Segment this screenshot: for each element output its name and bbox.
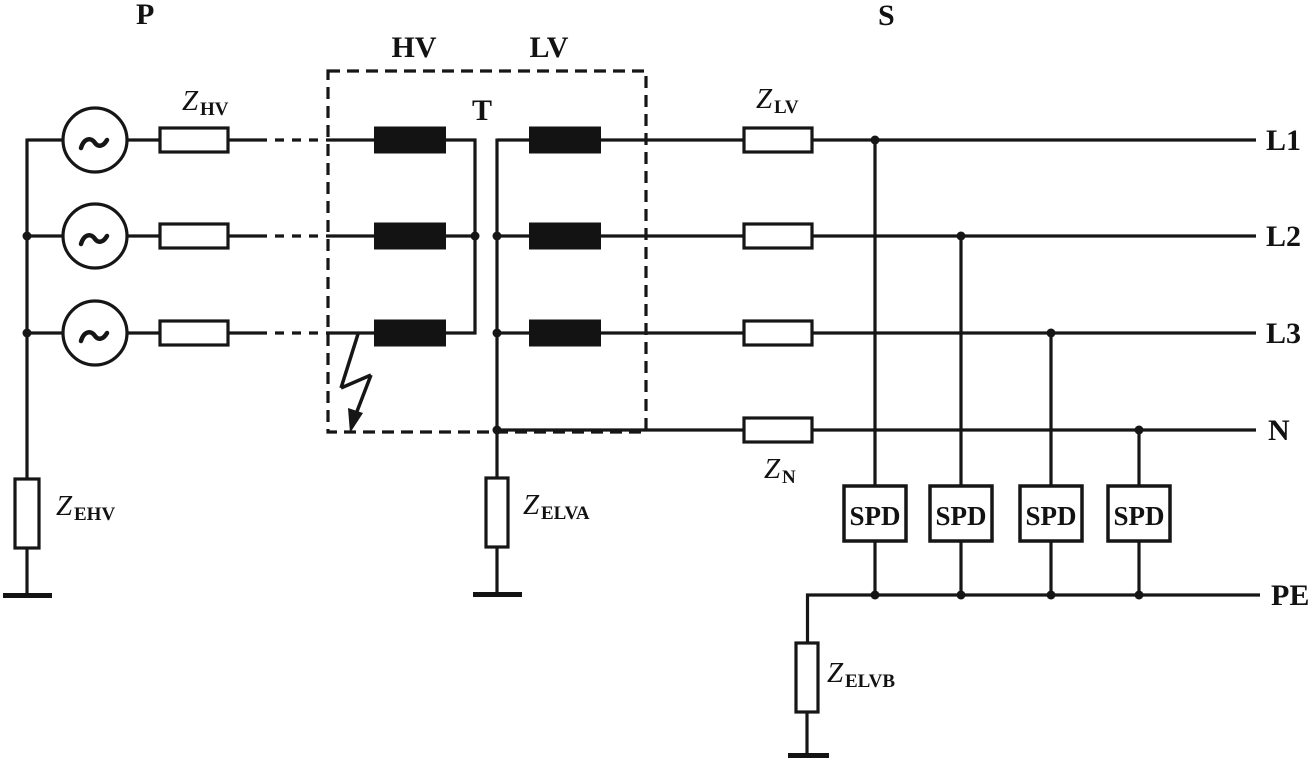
ground ELVB	[788, 753, 829, 758]
wire LV2 to ZLV2	[601, 234, 744, 237]
junction PE SPD3	[1047, 591, 1056, 600]
wire bus to source G1	[27, 138, 64, 141]
wire ZEHV to ground	[25, 548, 28, 593]
resistor ZHV2	[160, 224, 228, 248]
wire LV star bus	[495, 139, 498, 479]
wire HV1 to bus	[446, 138, 477, 141]
wire G2 to ZHV2	[127, 234, 160, 237]
wire into box row1	[332, 138, 375, 141]
resistor ZHV1	[160, 128, 228, 152]
junction PE SPD4	[1135, 591, 1144, 600]
wire ZHV2 stub	[228, 234, 258, 237]
svg-text:Z: Z	[523, 489, 540, 521]
resistor ZELVB	[796, 643, 818, 712]
junction L1 SPD	[871, 136, 880, 145]
svg-text:HV: HV	[200, 99, 229, 120]
svg-text:N: N	[1268, 414, 1290, 447]
svg-text:SPD: SPD	[935, 501, 986, 531]
junction left bus row2	[23, 232, 32, 241]
svg-text:ELVA: ELVA	[541, 503, 590, 524]
wire LV bus to LV1	[497, 138, 529, 141]
wire line N	[812, 428, 1256, 431]
svg-text:Z: Z	[756, 83, 773, 115]
wire HV star bus	[473, 139, 476, 335]
svg-text:Z: Z	[56, 490, 73, 522]
junction PE SPD2	[957, 591, 966, 600]
wire G3 to ZHV3	[127, 331, 160, 334]
wire line PE	[806, 593, 1260, 596]
source G2	[63, 204, 127, 268]
junction L3 SPD	[1047, 329, 1056, 338]
svg-text:T: T	[472, 94, 492, 127]
svg-text:PE: PE	[1271, 579, 1309, 612]
SPD4	[1108, 486, 1170, 541]
resistor ZEHV	[15, 479, 39, 548]
SPD2	[930, 486, 992, 541]
svg-text:Z: Z	[827, 657, 844, 689]
junction N SPD	[1135, 426, 1144, 435]
wire PE to ZELVB	[806, 594, 809, 644]
svg-text:L3: L3	[1266, 317, 1301, 350]
wire SPD3 to PE	[1049, 541, 1052, 595]
wire LV bus to LV2	[497, 234, 529, 237]
svg-text:Z: Z	[182, 85, 199, 117]
svg-text:LV: LV	[774, 97, 799, 118]
surge arrow lightning	[341, 334, 371, 414]
svg-text:LV: LV	[530, 31, 569, 64]
wire into box row3	[332, 331, 375, 334]
junction LV neutral	[493, 426, 502, 435]
junction LV row3	[493, 329, 502, 338]
svg-text:Z: Z	[764, 453, 781, 485]
transformer T boundary	[328, 71, 646, 432]
wire HV2 to bus	[446, 234, 475, 237]
wire L1 to SPD1	[873, 140, 876, 486]
wire line L3	[812, 331, 1256, 334]
SPD3	[1020, 486, 1082, 541]
resistor ZELVA	[486, 478, 508, 547]
resistor ZN	[744, 418, 812, 442]
wire into box row2	[332, 234, 375, 237]
wire neutral from star	[497, 428, 744, 431]
wire left bus vertical	[25, 139, 28, 480]
wire LV1 to ZLV1	[601, 138, 744, 141]
junction left bus row3	[23, 329, 32, 338]
junction LV row2	[493, 232, 502, 241]
wire LV3 to ZLV3	[601, 331, 744, 334]
junction HV star	[471, 232, 480, 241]
svg-text:SPD: SPD	[1113, 501, 1164, 531]
wire L3 to SPD3	[1049, 333, 1052, 486]
wire G1 to ZHV1	[127, 138, 160, 141]
junction L2 SPD	[957, 232, 966, 241]
wire dashed row2	[258, 234, 332, 237]
wire bus to source G3	[27, 331, 64, 334]
wire SPD1 to PE	[873, 541, 876, 595]
winding LV2	[529, 223, 601, 250]
wire ZHV3 stub	[228, 331, 258, 334]
resistor ZLV1	[744, 128, 812, 152]
wire SPD2 to PE	[959, 541, 962, 595]
resistor ZHV3	[160, 321, 228, 345]
wire dashed row3	[258, 331, 332, 334]
wire line L1	[812, 138, 1256, 141]
svg-text:P: P	[136, 0, 154, 31]
winding LV1	[529, 127, 601, 154]
wire N to SPD4	[1137, 430, 1140, 486]
ground ELVA	[473, 592, 522, 597]
wire line L2	[812, 234, 1256, 237]
winding HV3	[374, 320, 446, 347]
svg-text:SPD: SPD	[1025, 501, 1076, 531]
wire ZELVA to ground	[495, 547, 498, 592]
wire L2 to SPD2	[959, 236, 962, 486]
winding LV3	[529, 320, 601, 347]
winding HV1	[374, 127, 446, 154]
wire SPD4 to PE	[1137, 541, 1140, 595]
wire bus to source G2	[27, 234, 64, 237]
resistor ZLV3	[744, 321, 812, 345]
wire LV bus to LV3	[497, 331, 529, 334]
wire dashed row1	[258, 138, 332, 141]
ground EHV	[3, 593, 52, 598]
svg-text:EHV: EHV	[74, 504, 115, 525]
junction PE SPD1	[871, 591, 880, 600]
svg-text:ELVB: ELVB	[845, 671, 895, 692]
wire ZHV1 stub	[228, 138, 258, 141]
svg-text:L1: L1	[1266, 124, 1301, 157]
svg-text:N: N	[782, 467, 796, 488]
wire ZELVB to ground	[805, 712, 808, 753]
svg-text:L2: L2	[1266, 220, 1301, 253]
resistor ZLV2	[744, 224, 812, 248]
svg-text:S: S	[878, 0, 895, 32]
svg-text:SPD: SPD	[849, 501, 900, 531]
source G1	[63, 108, 127, 172]
wire HV3 to bus	[446, 331, 477, 334]
SPD1	[844, 486, 906, 541]
source G3	[63, 301, 127, 365]
svg-text:HV: HV	[392, 31, 437, 64]
winding HV2	[374, 223, 446, 250]
